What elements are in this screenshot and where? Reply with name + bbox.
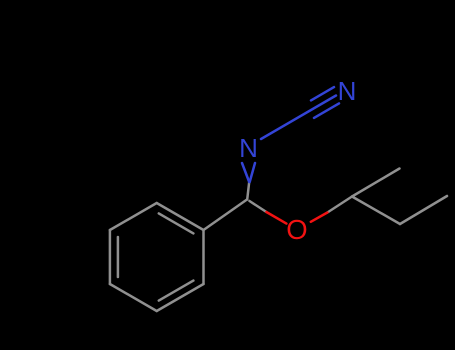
nitrile triple bond upper flank: [311, 87, 334, 100]
wire bond O to CH, gray half: [327, 197, 352, 213]
wire ring edge TR-BR: [202, 230, 205, 284]
svg-text:N: N: [239, 133, 258, 163]
wire bond CH-CH2 down: [352, 197, 400, 225]
wire ring edge BL-TL: [109, 230, 112, 284]
bond N-C and middle line of nitrile triple bond: [261, 96, 336, 140]
wire ring inner double line BL-TL: [117, 237, 120, 277]
nitrile triple bond lower flank: [314, 103, 339, 118]
wire bond CH-CH3 branch up: [352, 169, 400, 197]
wire gray stub of C=N below blue V: [247, 182, 249, 200]
svg-text:N: N: [338, 76, 357, 106]
wire ring edge BR-bottom: [157, 284, 204, 311]
wire ring edge top-TR: [157, 203, 204, 230]
wire ring inner double line BR-bottom: [159, 281, 194, 301]
wire bond C to O, gray half: [250, 201, 267, 212]
bond O-CH red half: [311, 213, 328, 222]
bond C-O red half: [266, 212, 327, 224]
wire ring edge bottom-BL: [110, 284, 157, 311]
wire bond CH2-CH3 end: [400, 196, 447, 224]
wire bond ring TR to central C: [204, 200, 248, 231]
svg-text:O: O: [286, 214, 307, 245]
wire ring edge TL-top: [110, 203, 157, 230]
benzene ring: [110, 169, 447, 312]
imine C=N double bond, blue V part: [242, 87, 339, 182]
wire ring inner double line top-TR: [159, 213, 194, 233]
